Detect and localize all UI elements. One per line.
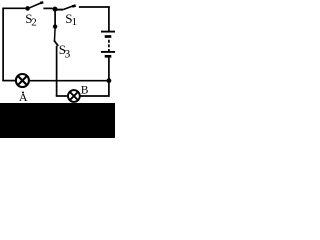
svg-text:B: B: [81, 84, 89, 96]
lamp B cross: [70, 92, 78, 100]
switch S3 contact tip: [54, 40, 58, 46]
node junction dot top: [53, 7, 58, 12]
label A apex mark: [22, 92, 24, 93]
switch S2 pivot dot: [25, 6, 30, 11]
wire top left segment: [2, 7, 25, 9]
switch S2 lever: [30, 3, 41, 8]
svg-text:3: 3: [65, 49, 71, 61]
wire lamp B to corner: [56, 95, 68, 97]
svg-text:A: A: [19, 90, 28, 104]
black censor band bottom: [0, 103, 115, 138]
wire right vertical upper: [108, 6, 110, 31]
battery cell 1 long plate: [101, 31, 115, 33]
switch S3 lever: [54, 28, 57, 41]
wire top between S2 and node: [43, 7, 52, 9]
svg-text:1: 1: [72, 16, 78, 28]
wire right vertical lower with corner: [80, 81, 109, 96]
node junction dot right: [107, 78, 112, 83]
switch S3 pivot dot: [53, 24, 57, 28]
lamp A body: [16, 74, 29, 87]
battery inter-cell dashed wire: [108, 40, 110, 52]
wire right vertical middle: [108, 58, 110, 81]
lamp B body: [68, 90, 80, 102]
switch S1 lever: [63, 6, 73, 10]
wire top right segment: [79, 6, 110, 8]
wire node to S1 pivot: [55, 9, 63, 11]
battery cell 2 short plate: [105, 55, 112, 58]
svg-text:2: 2: [31, 16, 37, 28]
wire middle branch upper vertical: [54, 9, 56, 26]
battery cell 2 long plate: [101, 51, 115, 53]
wire bottom left to lamp A: [2, 80, 15, 82]
wire middle branch lower vertical: [56, 46, 58, 97]
battery cell 1 short plate: [105, 35, 112, 38]
switch S1 contact tip: [72, 6, 76, 7]
wire lamp A to right node: [30, 80, 108, 82]
lamp A cross: [18, 76, 27, 85]
wire left vertical: [2, 8, 4, 80]
switch S2 contact tip: [40, 1, 43, 4]
